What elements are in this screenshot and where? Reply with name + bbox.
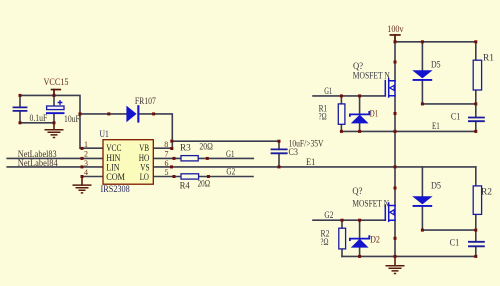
svg-text:0.1uF: 0.1uF [30,113,48,123]
svg-text:E1: E1 [432,121,440,131]
svg-text:R3: R3 [180,143,191,153]
svg-text:VB: VB [139,143,149,153]
svg-text:?Ω: ?Ω [319,112,327,122]
svg-text:7: 7 [165,150,169,159]
svg-text:D5: D5 [431,59,441,69]
svg-text:MOSFET N: MOSFET N [353,70,390,80]
svg-text:G1: G1 [324,86,332,96]
svg-text:LO: LO [140,172,150,182]
svg-text:8: 8 [164,140,168,149]
svg-text:D2: D2 [370,235,380,245]
svg-text:?Ω: ?Ω [321,237,329,247]
svg-text:C1: C1 [451,112,460,122]
svg-text:IRS2308: IRS2308 [101,184,131,194]
svg-text:E1: E1 [306,157,315,167]
svg-text:5: 5 [165,168,169,177]
svg-text:100v: 100v [387,24,404,34]
svg-text:G2: G2 [324,210,333,220]
svg-text:D1: D1 [370,108,378,118]
svg-text:D5: D5 [431,181,441,191]
svg-text:FR107: FR107 [135,96,156,106]
svg-text:20Ω: 20Ω [198,179,211,189]
svg-text:R1: R1 [483,53,494,63]
svg-text:3: 3 [84,159,88,168]
svg-text:VCC: VCC [106,143,121,153]
svg-text:COM: COM [106,172,125,182]
svg-text:10uF/>35V: 10uF/>35V [289,138,324,148]
svg-text:MOSFET N: MOSFET N [352,198,389,208]
svg-text:R4: R4 [180,181,191,191]
svg-text:10uF: 10uF [64,114,80,124]
svg-text:HO: HO [139,153,150,163]
svg-text:G2: G2 [226,166,235,176]
svg-text:HIN: HIN [106,153,121,163]
svg-text:VCC15: VCC15 [44,77,69,87]
svg-text:2: 2 [84,150,88,159]
svg-text:C1: C1 [450,238,460,248]
svg-text:U1: U1 [100,129,109,139]
svg-text:G1: G1 [226,149,235,159]
svg-text:Q?: Q? [352,186,362,196]
svg-text:1: 1 [84,140,88,149]
svg-text:20Ω: 20Ω [199,141,213,151]
svg-text:4: 4 [84,168,88,177]
svg-text:R2: R2 [481,187,492,197]
svg-text:NetLabel84: NetLabel84 [18,158,58,168]
svg-text:6: 6 [165,159,169,168]
